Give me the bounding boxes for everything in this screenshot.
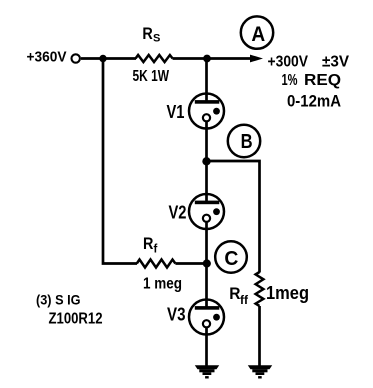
wire Rs to arrow [173,57,252,60]
wire main vertical top to V1 [205,59,208,104]
wire left vertical [103,59,137,264]
ground right [248,365,272,378]
tube V2 [189,194,224,229]
node B [228,125,260,157]
node A [241,16,273,48]
svg-text:±3V: ±3V [322,54,349,71]
svg-text:V3: V3 [167,305,186,325]
node C [215,241,247,273]
svg-text:R: R [143,235,153,253]
svg-text:f: f [154,244,158,256]
svg-text:C: C [224,247,238,270]
svg-text:1 meg: 1 meg [143,276,182,293]
svg-text:0-12mA: 0-12mA [287,92,341,111]
svg-text:V2: V2 [169,203,187,223]
svg-text:+300V: +300V [268,54,309,71]
resistor Rff [256,272,264,306]
arrowhead output [250,55,263,63]
wire Rff to ground [258,306,261,367]
svg-text:REQ: REQ [304,72,341,89]
junction dot top of tube string [203,55,211,63]
svg-text:5K 1W: 5K 1W [133,68,170,85]
svg-text:A: A [251,22,265,46]
terminal +360V [72,54,80,62]
resistor Rf [137,260,176,268]
svg-text:Z100R12: Z100R12 [49,311,103,328]
svg-text:1meg: 1meg [266,283,309,303]
svg-text:V1: V1 [167,102,185,122]
junction dot left [99,55,106,62]
svg-text:1%: 1% [282,72,298,89]
tube V1 [189,94,224,129]
junction dot B [202,157,210,165]
svg-text:+360V: +360V [27,49,67,66]
svg-text:R: R [142,25,152,43]
wire V3 to ground [205,328,208,368]
wire Rf to node C [175,262,207,265]
svg-text:(3) S IG: (3) S IG [36,293,81,308]
wire terminal to resistor Rs [81,57,136,60]
resistor Rs [136,55,173,62]
tube V3 [189,300,224,335]
svg-text:S: S [153,33,160,45]
svg-text:ff: ff [240,293,249,307]
svg-text:B: B [241,130,253,153]
svg-text:R: R [229,284,240,303]
wire node B horizontal and right vertical [207,161,260,273]
wire V1 to V2 [205,122,208,205]
junction dot C [203,259,211,267]
wire V2 to V3 [205,222,208,310]
ground left [195,365,219,378]
